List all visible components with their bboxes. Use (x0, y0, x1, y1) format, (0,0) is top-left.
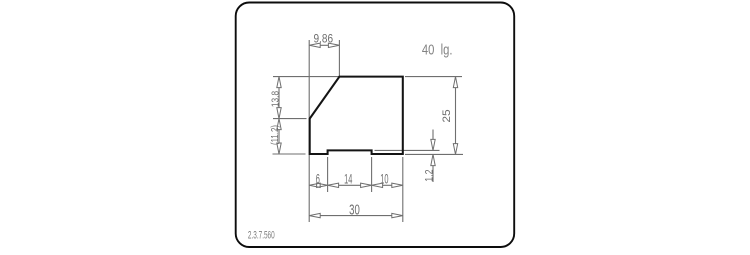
extension line: groove right below (14/10 ref) (371, 157, 373, 192)
extension line: top edge to left (13.8 upper ref) (273, 76, 339, 78)
svg-text:30: 30 (349, 201, 360, 218)
extension line: right edge below (10/30 ref) (402, 157, 404, 222)
svg-text:6: 6 (316, 172, 320, 187)
arrow 25 top (453, 77, 457, 88)
arrow 14 right (361, 183, 372, 187)
arrow 9.86 right (328, 43, 339, 47)
svg-text:13.8: 13.8 (270, 91, 282, 107)
dimension line 13.8 (278, 88, 280, 108)
dimension line 14 (339, 184, 361, 186)
svg-text:9.86: 9.86 (314, 33, 334, 46)
arrow 9.86 left (309, 43, 320, 47)
dimension line 9.86 (320, 44, 328, 46)
extension line: left edge vertical (shared by 9.86, 6, 30 dims) (308, 40, 310, 222)
arrow 1.2 down (above) (431, 139, 435, 150)
arrowheads (open CAD style) (277, 43, 458, 218)
svg-text:14: 14 (344, 172, 352, 187)
arrow 6 left (309, 183, 320, 187)
svg-text:1.2: 1.2 (424, 169, 436, 182)
svg-text:(11.2): (11.2) (269, 125, 280, 145)
part profile outline (310, 77, 403, 154)
arrow 30 right (392, 213, 403, 217)
drawing card border (236, 3, 515, 248)
arrow 11.2 top (277, 119, 281, 130)
dimension line 30 (320, 215, 392, 217)
extension line: bottom edge to right (25/1.2 lower ref) (405, 153, 463, 155)
extension line: groove top to right (1.2 upper ref) (375, 149, 440, 151)
svg-text:2.3.7.560: 2.3.7.560 (248, 228, 275, 240)
extension line: bottom edge to left (11.2 lower ref) (273, 153, 306, 155)
arrow 11.2 bottom (277, 143, 281, 154)
extension line: top edge to right (25 upper ref) (405, 76, 462, 78)
arrow 13.8 top (277, 77, 281, 88)
extension line: chamfer bottom to left (13.8/11.2 ref) (273, 118, 307, 120)
svg-text:40 lg.: 40 lg. (422, 41, 453, 58)
extension line: groove left below (6/14 ref) (327, 157, 329, 192)
arrow 6 right (317, 183, 328, 187)
arrow 25 bottom (453, 144, 457, 155)
dimension leader 1.2 lower tail (432, 166, 434, 182)
arrow 14 left (328, 183, 339, 187)
svg-text:10: 10 (380, 172, 388, 187)
dimension line 25 (455, 88, 457, 144)
extension line: chamfer top corner vertical (9.86 right) (338, 40, 340, 76)
arrow 10 left (372, 183, 383, 187)
arrow 10 right (392, 183, 403, 187)
arrow 30 left (309, 213, 320, 217)
arrow 1.2 up (below) (431, 154, 435, 165)
svg-text:25: 25 (440, 109, 453, 122)
arrow 13.8 bottom (277, 108, 281, 119)
dimension line 10 (383, 184, 392, 186)
dimension line (11.2) (278, 130, 280, 143)
dimension leader 1.2 upper tail (432, 130, 434, 140)
